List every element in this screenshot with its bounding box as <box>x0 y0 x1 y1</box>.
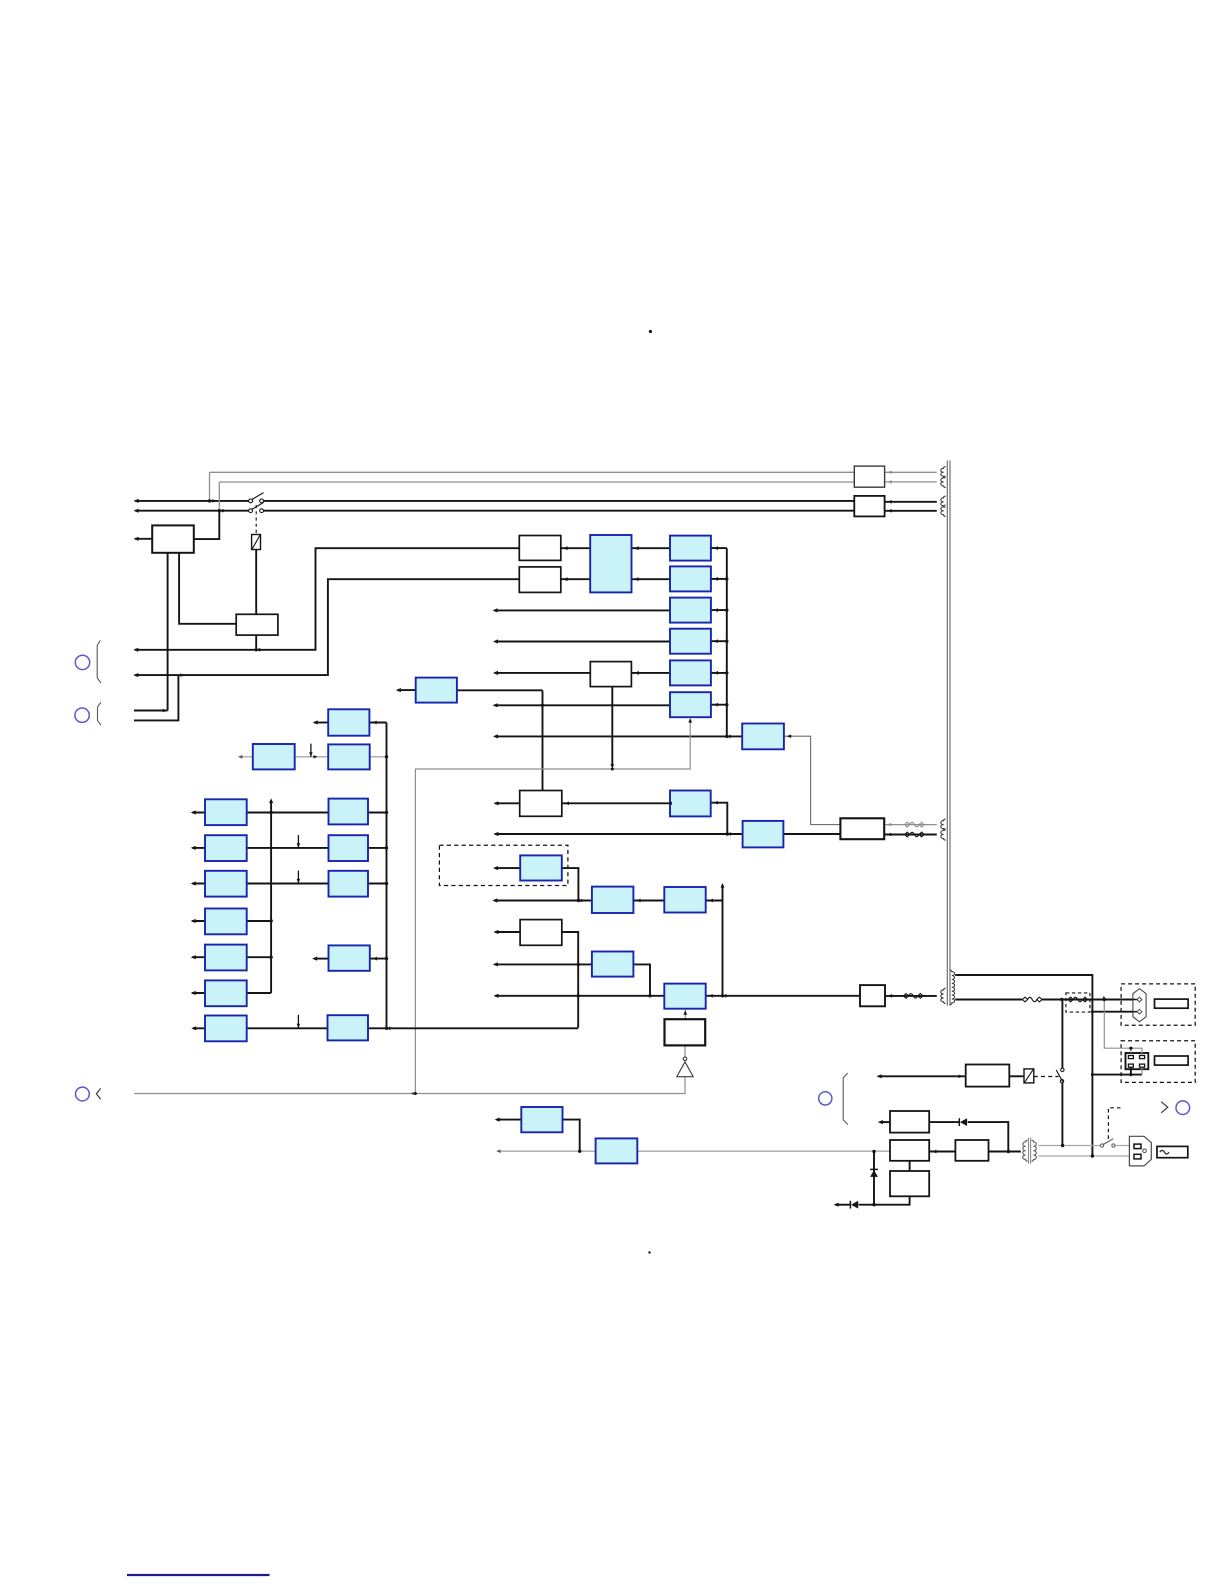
block B13 <box>890 1111 929 1133</box>
arrow mark gray row <box>314 755 318 758</box>
wire CN1 pin1 lead inside <box>1133 999 1137 1001</box>
regulator C3 <box>670 598 711 623</box>
gray sec line 2 <box>1038 1155 1129 1157</box>
wire C2 output <box>711 578 727 580</box>
block B2b (rectifier) <box>519 567 561 593</box>
winding W1 of T1 <box>941 467 946 478</box>
arrowhead C8 output <box>396 688 401 692</box>
block B3 (filter) <box>590 662 631 687</box>
wire B14 to B16 <box>909 1161 911 1171</box>
wire C11 output <box>706 900 723 902</box>
diode D1 <box>959 1118 967 1126</box>
wire C8 output left <box>398 689 416 691</box>
arrowhead top of 722 bus <box>721 883 725 888</box>
wire line 900 <box>494 900 592 902</box>
wire B1 bottom pin B down to relay <box>179 553 236 624</box>
junction V1 row4 <box>269 919 272 922</box>
arrowhead row6L <box>191 991 196 995</box>
wire CA input <box>496 1119 521 1121</box>
arrowhead B13 input <box>878 1120 883 1124</box>
indicator lamp circle <box>683 1057 687 1061</box>
connector CN1 pin 1 <box>1137 997 1142 1002</box>
connector CN1 pin 2 <box>1137 1009 1142 1014</box>
arrowhead row3 <box>493 608 498 612</box>
gray net riser <box>415 719 690 1094</box>
wire B11 lead 2 <box>885 510 937 512</box>
gray link B9 to lamp <box>684 1045 686 1057</box>
wire vertical 722 bus <box>722 885 724 996</box>
junction V1 row1 <box>269 811 272 814</box>
wire U3 to B6 <box>783 833 840 835</box>
junction C9 drop / line 900 <box>577 899 580 902</box>
arrowhead CA input <box>495 1118 500 1122</box>
wire input row6 <box>494 704 670 706</box>
wire C10 to C11 <box>633 900 664 902</box>
sheet ref bubble A <box>75 655 89 669</box>
wire row7 <box>193 1027 328 1029</box>
wire block B1 output left <box>135 538 152 540</box>
arrowhead C6 output <box>714 703 718 707</box>
sheet ref bubble C <box>76 1087 90 1101</box>
splice on B6 gray lead <box>905 822 925 827</box>
junction V2 row3 <box>385 882 388 885</box>
switch S2 contact bottom <box>1060 1080 1063 1083</box>
wire C5 output <box>711 672 727 674</box>
wire U2 to B4 (gray path) <box>784 736 841 824</box>
wire sense 1 drop to bus1 <box>209 472 211 501</box>
winding W2 of T1 <box>941 476 946 487</box>
arrowhead into B8 <box>888 994 892 998</box>
arrow mark on bus1 <box>212 499 216 503</box>
wire B3 bottom to gray net <box>611 687 613 766</box>
arrowhead into U1 row2 <box>634 577 639 581</box>
connector CN2 pin a <box>1128 1056 1133 1059</box>
sheet ref bubble E <box>1176 1101 1190 1115</box>
mid block M1 <box>329 799 369 825</box>
wire C8 to drop <box>457 689 543 691</box>
connector CN2 pin c <box>1128 1064 1133 1067</box>
wire B10 lead 1 <box>885 471 937 473</box>
arrow mark row7 <box>389 1027 393 1031</box>
block B2a (rectifier) <box>519 536 561 561</box>
wire B16 bottom to line 1205 <box>859 1196 910 1204</box>
junction V2 row1 <box>385 811 388 814</box>
arrowhead into U2 <box>787 734 791 738</box>
junction line834 / C7 drop <box>726 832 729 835</box>
arrow mark feed line <box>729 735 733 739</box>
winding W8 primary of T1 <box>950 970 955 1005</box>
junction B15 / riser <box>1007 1150 1010 1153</box>
arrowhead into B3 <box>634 671 639 675</box>
arrowhead line 964 <box>493 962 498 966</box>
junction CN2 bottom <box>1129 1073 1132 1076</box>
load block L6 <box>205 980 247 1006</box>
brace for bubble A <box>97 640 101 683</box>
block B5 <box>520 791 562 817</box>
arrowhead row4 <box>493 639 498 643</box>
dashed link F1 to S2 <box>1034 1076 1059 1078</box>
gray sec line 1b <box>1115 1145 1130 1147</box>
arrowhead line 996 <box>494 994 499 998</box>
regulator C7 <box>670 791 711 817</box>
switch S1b contacts on bus2 <box>249 502 264 512</box>
arrow mark stub/line B junction <box>180 673 184 677</box>
arrowhead bus line 2 <box>134 509 139 513</box>
wire input row5 left <box>495 672 591 674</box>
arrowhead B7 input <box>494 930 499 934</box>
arrowhead row7L <box>191 1026 196 1030</box>
mid block M5 <box>329 945 370 970</box>
gray drop to CN2 <box>1104 1001 1142 1056</box>
junction output bus row6 <box>725 703 728 706</box>
wire M5 output <box>370 958 387 960</box>
regulator Q2 <box>328 744 370 769</box>
arrowhead C4 output <box>714 639 718 643</box>
regulator C5 <box>670 660 711 685</box>
arrowhead C2 output <box>714 577 718 581</box>
tick row7 arrowhead <box>297 1024 301 1028</box>
switch S3 blade <box>1103 1139 1113 1145</box>
label plate CN1 <box>1155 999 1189 1008</box>
wire U1 to C1 row1 <box>632 547 671 549</box>
wire line A <box>135 548 519 650</box>
wire D1 to riser <box>968 1122 1009 1151</box>
arrowhead into C13 bottom <box>683 1010 687 1014</box>
load block L3 <box>205 871 247 897</box>
arrowhead V1 top <box>269 798 273 803</box>
wire AC bus line 2 left segment <box>135 510 250 512</box>
transformer T1 core <box>947 461 950 1006</box>
wire B8 to T1 winding <box>885 995 937 997</box>
brace for bubble D <box>843 1073 848 1125</box>
junction V2 row5m <box>385 957 388 960</box>
arrowhead line 900 <box>492 898 497 902</box>
AC inlet pin L <box>1134 1144 1141 1149</box>
winding W3 of T1 <box>941 496 946 507</box>
arrow mark after 722 <box>725 994 729 998</box>
wire B6 out gray <box>884 824 937 826</box>
wire CN2 bottom feed <box>1092 1074 1142 1076</box>
junction bus2 / sense tap <box>218 509 221 512</box>
arrowhead into B2b <box>563 577 568 581</box>
wire stub to B1 pin A <box>134 710 168 712</box>
arrowhead row 803 <box>494 801 499 805</box>
wire input B7 <box>495 931 520 933</box>
arrowhead row3L <box>191 881 196 885</box>
wire switch feed vertical top <box>1061 1000 1063 1069</box>
arrowhead P1 out <box>372 721 376 725</box>
wire V2 collector <box>386 723 388 1029</box>
dashed connector enclosure CN1 <box>1121 984 1195 1025</box>
arrowhead into B2a <box>563 546 568 550</box>
arrowhead C7 output <box>714 801 718 805</box>
wire row3 right <box>368 883 387 885</box>
arrowhead C13 output <box>709 994 713 998</box>
regulator U3 <box>743 821 784 848</box>
wire row5 <box>192 956 271 958</box>
block B1 (line filter) <box>152 525 194 552</box>
switch S1a contacts on bus1 <box>249 493 264 503</box>
wire CA output drop <box>563 1120 580 1152</box>
wire CN1 pin2 lead inside <box>1133 1011 1137 1013</box>
chevron for bubble E <box>1161 1102 1168 1113</box>
wire AC bus line 1 right segment <box>262 500 855 502</box>
junction C12 drop / line 996 <box>648 994 651 997</box>
arrowhead B11 lead2 <box>887 509 891 513</box>
connector CN2 pin d <box>1140 1064 1145 1067</box>
gray sec line 1 <box>1038 1145 1101 1147</box>
junction V1 row5 <box>269 956 272 959</box>
wire B1 bottom pin A down <box>167 553 169 711</box>
AC inlet ground hole <box>1143 1149 1147 1153</box>
relay coil RY1 <box>252 535 261 550</box>
wire row2 right <box>368 847 387 849</box>
tick gray row stub <box>310 744 312 757</box>
block B8 (heater drive) <box>860 985 885 1006</box>
wire V1 collector <box>270 800 272 993</box>
junction bus1 / sense tap <box>208 499 211 502</box>
AC label tilde <box>1160 1150 1169 1154</box>
junction output bus row2 <box>725 577 728 580</box>
wire relay bottom to line A <box>255 635 257 650</box>
junction 578/964 <box>577 963 580 966</box>
gray row line <box>240 756 387 758</box>
arrow mark primary <box>1102 996 1105 1000</box>
wire vertical drop to B5 top <box>542 690 544 790</box>
wire input B13 <box>880 1121 891 1123</box>
switch S3 contact R <box>1112 1144 1115 1147</box>
load block L5 <box>205 945 247 971</box>
arrowhead feed line <box>493 734 498 738</box>
splice on B6 black lead <box>905 832 925 837</box>
wire input row4 <box>495 641 670 643</box>
dashed connector enclosure CN2 <box>1121 1041 1195 1083</box>
winding W7 of T1 <box>941 988 946 1003</box>
mid block M2 <box>329 835 369 861</box>
label plate CN2 <box>1155 1056 1189 1065</box>
chevron for bubble C <box>96 1088 100 1099</box>
dashed splice enclosure <box>1066 993 1090 1012</box>
arrowhead P1 stub <box>313 720 318 724</box>
junction S2 / AC line <box>1061 1144 1064 1147</box>
sheet ref bubble D <box>819 1092 832 1105</box>
connector CN1 shell hexagon <box>1133 989 1146 1022</box>
load block L1 <box>205 799 247 825</box>
junction V2 gray row <box>385 755 388 758</box>
brace for bubble B <box>98 702 101 725</box>
wire C6 output <box>711 704 727 706</box>
regulator C4 <box>670 629 711 654</box>
relay coil RY1 diagonal <box>252 535 260 549</box>
wire output bus vertical <box>726 548 728 736</box>
junction output bus row4 <box>725 640 728 643</box>
junction sec2 / vertical <box>1091 1154 1094 1157</box>
arrowhead into U1 row1 <box>634 546 639 550</box>
junction line1205 / V3 <box>872 1203 875 1206</box>
AC inlet pin N <box>1134 1154 1141 1159</box>
arrowhead C9 input <box>493 866 498 870</box>
arrowhead into B14 <box>932 1150 936 1154</box>
label plate AC <box>1157 1146 1188 1157</box>
junction 722 bus end <box>721 994 724 997</box>
regulator C10 <box>592 887 634 913</box>
wire line 996 left <box>495 995 664 997</box>
wire sense 1 (gray) to T1 winding <box>210 471 855 473</box>
arrowhead B11 lead1 <box>887 500 891 504</box>
arrowhead into B5 <box>565 801 569 805</box>
winding W5 of T1 <box>941 819 946 830</box>
wire line 834 <box>495 833 743 835</box>
arrowhead into C6 bottom <box>688 718 692 722</box>
wire C7 output to line 834 <box>711 803 728 834</box>
diode D2 <box>850 1201 858 1209</box>
gray branch CN2 pin4 <box>1141 1067 1143 1074</box>
arrowhead into C10 <box>636 899 640 903</box>
mid block M3 <box>329 871 369 897</box>
wire C4 output <box>711 640 727 642</box>
wire B3 to C5 <box>631 672 670 674</box>
footer rule <box>127 1574 270 1576</box>
arrowhead row5L <box>191 955 196 959</box>
regulator C8 <box>416 678 457 703</box>
wire row2 <box>192 847 328 849</box>
wire M5 input stub <box>314 958 329 960</box>
sheet ref bubble B <box>75 708 89 722</box>
wire P1 output to V2 <box>369 722 386 724</box>
junction gray AC / CA drop <box>578 1150 581 1153</box>
wire row6 <box>192 992 271 994</box>
arrowhead line 834 <box>493 832 498 836</box>
splice primary lead <box>1022 997 1042 1002</box>
wire stub joining line B <box>134 675 178 720</box>
junction CN2 feed / vertical <box>1091 1073 1094 1076</box>
block B9 (sensor) <box>665 1019 706 1045</box>
tick row2 stub <box>297 835 299 848</box>
arrow mark line 900 <box>581 899 585 903</box>
wire C12 output drop <box>633 964 650 995</box>
junction relay / line A <box>255 648 258 651</box>
wire B15 to T2 <box>989 1151 1021 1153</box>
gray branch to CN2 pin1 <box>1130 1048 1132 1053</box>
wire primary bottom 2 <box>1042 999 1138 1001</box>
tick row3 stub <box>297 871 299 884</box>
arrowhead into B12 <box>959 1074 963 1078</box>
indicator triangle <box>677 1062 693 1077</box>
arrowhead B3 drop <box>610 764 614 768</box>
tick gray row arrowhead <box>309 752 313 756</box>
arrow mark gray net <box>410 1092 414 1095</box>
arrow mark line834 <box>730 832 734 836</box>
block B10 (snubber) <box>854 466 884 487</box>
junction B3 drop <box>611 768 614 771</box>
wire B14 to B15 <box>929 1151 955 1153</box>
regulator U1 (main converter) <box>590 535 631 592</box>
arrowhead line B <box>133 673 138 677</box>
wire AC bus line 2 right segment <box>262 510 855 512</box>
junction CN2 top <box>1129 1047 1132 1050</box>
arrowhead bus line 1 <box>134 499 139 503</box>
arrowhead C1 output <box>714 546 718 550</box>
wire bus2 tap down to block B1 <box>194 511 220 539</box>
tick row3 arrowhead <box>297 879 301 883</box>
arrowhead gray row <box>238 755 242 759</box>
tick row2 arrowhead <box>297 843 301 847</box>
wire primary bottom <box>955 999 1022 1001</box>
load block L2 <box>205 835 247 861</box>
regulator C1 <box>670 536 711 561</box>
gray net from triangle <box>134 1077 685 1094</box>
block B7 <box>520 920 562 946</box>
arrowhead B12 input <box>877 1074 882 1078</box>
wire row7 right <box>368 1027 578 1029</box>
junction output bus row3 <box>725 608 728 611</box>
junction pin2 / vertical <box>1091 1010 1094 1013</box>
regulator C11 <box>664 887 705 913</box>
wire line 964 <box>494 963 592 965</box>
wire C3 output <box>711 609 727 611</box>
wire B2b to U1 <box>561 578 590 580</box>
junction V2 row2 <box>385 846 388 849</box>
wire B2a to U1 <box>561 547 590 549</box>
switch S2 contact top <box>1061 1068 1064 1071</box>
junction primary / CN drop <box>1103 998 1106 1001</box>
relay contact block RY1b <box>236 614 278 635</box>
regulator C12 <box>592 952 634 977</box>
arrowhead row5 <box>493 671 498 675</box>
transformer T2 core <box>1029 1138 1031 1164</box>
arrowhead stub meets pin A <box>163 709 167 713</box>
arrowhead B6 out black <box>887 833 891 837</box>
junction V3 / gray AC <box>872 1150 875 1153</box>
dashed link S1 to relay coil <box>255 505 257 535</box>
wire line B <box>135 579 519 675</box>
wire line 1205 left <box>835 1204 850 1206</box>
wire row3L <box>192 883 328 885</box>
arrowhead B1 output <box>134 537 139 541</box>
regulator P1 <box>328 709 369 735</box>
block B16 <box>890 1171 929 1196</box>
wire input row3 <box>494 609 670 611</box>
tick row7 stub <box>297 1015 299 1029</box>
load block L4 <box>205 909 247 935</box>
connector CN2 body <box>1126 1053 1149 1069</box>
wire B13 to diode D1 <box>929 1121 959 1123</box>
block B14 <box>890 1140 929 1161</box>
wire C9 output drop <box>562 868 579 900</box>
regulator CA (standby) <box>521 1107 562 1132</box>
wire input row (803) left <box>495 802 520 804</box>
arrowhead line1205 <box>834 1203 839 1207</box>
regulator C13 <box>664 984 705 1009</box>
wire AC bus line 1 left segment <box>135 500 250 502</box>
wire B5 to C7 <box>562 802 670 804</box>
arrow mark line A <box>259 648 263 652</box>
connector CN2 pin b <box>1140 1056 1145 1059</box>
arrowhead M5 out <box>373 957 377 961</box>
arrow mark on bus2 <box>222 509 226 513</box>
gray AC line (1151) <box>498 1150 891 1152</box>
wire B6 out black <box>884 834 937 836</box>
junction output bus / feed line <box>725 735 728 738</box>
winding T2 primary <box>1023 1140 1028 1161</box>
block B12 (protector) <box>966 1065 1010 1087</box>
wire P1 input stub <box>314 722 328 724</box>
arrowhead row4L <box>191 919 196 923</box>
wire row1 right <box>368 812 387 814</box>
arrowhead C11 output <box>709 899 713 903</box>
arrowhead row1 <box>191 810 196 814</box>
wire C1 output <box>711 547 727 549</box>
